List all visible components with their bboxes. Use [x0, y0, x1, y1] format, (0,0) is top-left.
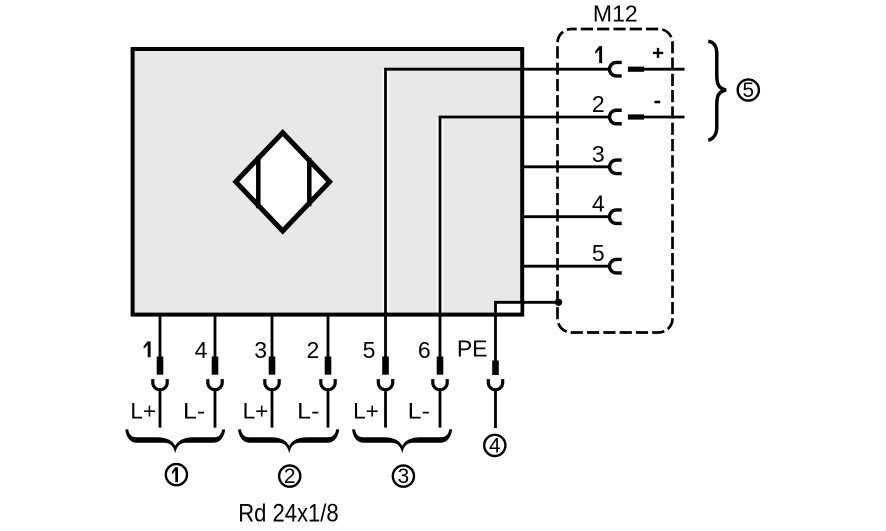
circled 2 — [279, 465, 300, 488]
socket cup terminal 2 — [321, 379, 335, 390]
svg-text:5: 5 — [592, 240, 605, 266]
M12 socket pin3 — [610, 160, 622, 174]
svg-text:L+: L+ — [353, 398, 379, 423]
terminal number 1 — [144, 341, 151, 357]
M12 connector dashed outline — [558, 29, 673, 333]
polarity plus — [653, 48, 663, 58]
plug contact pin2 — [628, 114, 644, 119]
socket cup terminal 3 — [265, 379, 279, 390]
svg-text:4: 4 — [489, 434, 501, 457]
M12 socket pin1 — [610, 62, 622, 75]
circled 1 — [166, 464, 187, 485]
junction dot PE / M12 shell — [555, 299, 562, 306]
svg-text:L+: L+ — [130, 398, 156, 423]
polarity minus — [654, 101, 660, 104]
ferrule terminal 5 — [382, 357, 389, 375]
plug contact pin1 — [628, 67, 644, 72]
M12 socket pin5 — [610, 259, 622, 273]
svg-text:5: 5 — [743, 79, 755, 102]
svg-text:3: 3 — [254, 337, 267, 363]
socket cup terminal 4 — [208, 379, 222, 390]
svg-text:L-: L- — [297, 398, 319, 423]
logo diamond — [236, 133, 330, 231]
white casing notch at PE corner — [497, 304, 521, 313]
wire terminal 2 — [327, 314, 330, 428]
socket cup PE — [488, 379, 502, 390]
wire terminal 5 lower — [384, 391, 387, 428]
wire terminal 3 — [271, 314, 274, 428]
wire after contact pin2 — [644, 116, 685, 119]
socket cup terminal 1 — [153, 379, 167, 390]
svg-text:2: 2 — [307, 337, 320, 363]
wire terminal 4 — [214, 314, 217, 428]
device body (gray box) — [133, 49, 523, 315]
M12 socket pin4 — [610, 210, 622, 224]
ferrule terminal 3 — [269, 357, 276, 375]
svg-text:L-: L- — [183, 398, 205, 423]
underbrace pair 2 — [238, 429, 339, 453]
underbrace pair 3 — [352, 429, 452, 453]
ferrule terminal 6 — [437, 357, 444, 375]
svg-text:2: 2 — [284, 465, 296, 488]
circled 4 — [484, 434, 505, 457]
underbrace pair 1 — [125, 429, 225, 453]
ferrule terminal 4 — [212, 357, 219, 375]
svg-text:L-: L- — [408, 398, 430, 423]
socket cup terminal 6 — [433, 379, 447, 390]
svg-text:4: 4 — [592, 191, 605, 217]
wire PE lower — [494, 391, 497, 429]
wire terminal 1 — [159, 314, 162, 428]
pin number 1 — [595, 46, 602, 63]
circled 3 — [393, 465, 414, 488]
ferrule terminal 2 — [325, 357, 332, 375]
M12 socket pin2 — [610, 110, 622, 124]
wire after contact pin1 — [644, 68, 685, 71]
svg-text:Rd 24x1/8: Rd 24x1/8 — [238, 501, 339, 528]
wire pin4 — [522, 215, 609, 218]
svg-text:3: 3 — [592, 141, 605, 167]
ferrule PE — [492, 361, 499, 376]
ferrule terminal 1 — [157, 357, 164, 375]
white casing pin2 vertical wire — [437, 119, 443, 313]
svg-text:4: 4 — [195, 337, 208, 363]
svg-text:3: 3 — [398, 465, 410, 488]
wire pin3 — [522, 165, 609, 168]
wire pin5 — [522, 265, 609, 268]
svg-text:PE: PE — [457, 336, 488, 362]
brace right (pins 1-2) — [708, 41, 726, 140]
circled 5 — [738, 79, 759, 102]
wire PE — [496, 302, 559, 360]
wire terminal 6 lower — [439, 391, 442, 428]
svg-text:2: 2 — [592, 91, 605, 117]
socket cup terminal 5 — [378, 379, 392, 390]
wire pin2 (terminal 6 to M12 pin 2) — [440, 117, 609, 358]
wire pin1 (terminal 5 to M12 pin 1) — [386, 69, 609, 357]
svg-text:5: 5 — [363, 337, 376, 363]
svg-text:L+: L+ — [243, 398, 269, 423]
svg-text:6: 6 — [418, 337, 431, 363]
white casing pin1 vertical wire — [382, 71, 388, 312]
svg-text:M12: M12 — [593, 1, 638, 27]
